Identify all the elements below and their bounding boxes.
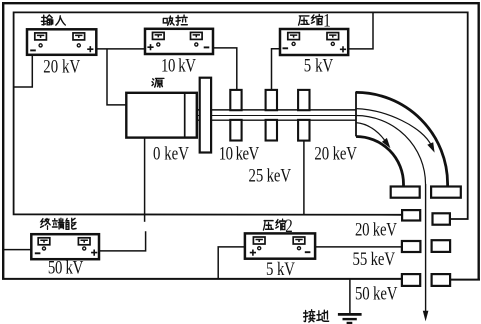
svg-text:0 keV: 0 keV (153, 143, 189, 164)
svg-text:10 kV: 10 kV (161, 55, 196, 76)
svg-text:50 kV: 50 kV (48, 257, 84, 278)
svg-text:50 keV: 50 keV (355, 283, 398, 304)
svg-text:20 kV: 20 kV (43, 56, 80, 77)
svg-text:20 keV: 20 keV (314, 143, 357, 164)
svg-text:20 keV: 20 keV (355, 219, 397, 240)
svg-text:2: 2 (285, 215, 292, 236)
svg-text:55 keV: 55 keV (353, 248, 396, 269)
svg-text:5 kV: 5 kV (266, 258, 295, 279)
svg-text:5 kV: 5 kV (304, 55, 334, 76)
svg-text:1: 1 (323, 9, 331, 31)
svg-text:10 keV: 10 keV (219, 143, 260, 164)
svg-text:25 keV: 25 keV (249, 165, 292, 186)
